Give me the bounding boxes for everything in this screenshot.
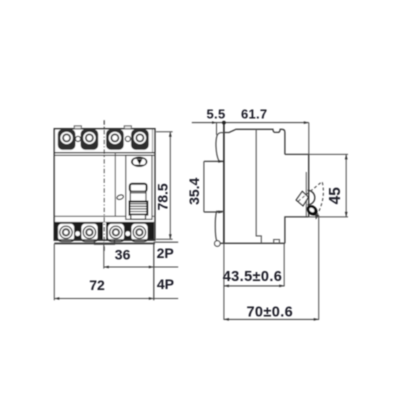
toggle side: knob	[305, 203, 320, 218]
centerline front	[103, 120, 105, 252]
toggle grip	[130, 202, 148, 215]
bottom terminal screws	[60, 226, 146, 238]
arc arrowhead	[315, 214, 319, 219]
dashed swing line	[298, 182, 322, 202]
back edge	[223, 123, 225, 244]
OFF indicator o	[116, 194, 124, 200]
inner vertical + step foot	[256, 129, 261, 243]
dim extensions bottom	[53, 244, 55, 300]
dim 72 arrows	[54, 297, 59, 300]
inner face line	[305, 172, 307, 217]
band lower line	[54, 239, 155, 241]
svg-text:45: 45	[327, 187, 344, 205]
svg-text:61.7: 61.7	[241, 107, 268, 122]
ext 61.7 right	[308, 123, 310, 155]
43.5 dim line	[224, 285, 284, 287]
body outline	[54, 129, 155, 240]
cover top line	[54, 154, 155, 156]
escutcheon panel	[126, 155, 152, 219]
toggle lower tab	[131, 215, 146, 220]
svg-text:35.4: 35.4	[186, 177, 202, 204]
dashed swing arc	[317, 182, 323, 215]
2P/4P table lines	[154, 241, 178, 243]
case bottom line	[54, 242, 155, 244]
step under toggle	[285, 217, 309, 243]
cover step line	[54, 215, 155, 217]
43.5 ext	[283, 244, 285, 287]
right seam line	[151, 130, 153, 153]
bottom terminal squares	[57, 223, 148, 241]
svg-text:43.5±0.6: 43.5±0.6	[223, 269, 283, 285]
top tab left	[74, 126, 81, 129]
toggle cap	[130, 184, 147, 192]
top terminal screws	[60, 132, 146, 144]
ext 5.5 left	[216, 123, 218, 135]
top flap	[216, 133, 224, 161]
svg-text:72: 72	[89, 277, 105, 293]
bottom small circles	[75, 231, 81, 237]
toggle neck	[130, 192, 146, 202]
dim 36 arrows	[104, 266, 109, 269]
70 knob extension	[318, 216, 320, 320]
toggle side: pivot arc	[307, 190, 314, 205]
top tab right	[124, 126, 131, 129]
svg-text:4P: 4P	[157, 276, 174, 292]
top terminal blob 1	[58, 130, 75, 150]
upper ledge	[285, 153, 309, 155]
top dim line	[192, 122, 309, 124]
70 dim line	[224, 318, 319, 320]
bottom face	[220, 242, 285, 244]
back edge extension down	[223, 243, 225, 320]
top terminal blob 4	[132, 130, 149, 150]
front face	[308, 154, 310, 217]
svg-text:2P: 2P	[157, 245, 174, 261]
clip loop circle	[215, 241, 221, 247]
35.4 dim	[204, 160, 223, 162]
bottom flap	[215, 211, 224, 242]
top terminal blob 2	[81, 130, 98, 150]
test button	[132, 157, 147, 166]
dim 78.5	[156, 131, 173, 133]
svg-text:70±0.6: 70±0.6	[246, 305, 293, 321]
svg-text:36: 36	[115, 247, 131, 263]
top terminal blob 3	[107, 130, 124, 150]
top small circles	[75, 136, 80, 141]
bottom band	[55, 222, 154, 240]
DIN clip bracket	[95, 240, 115, 244]
svg-text:78.5: 78.5	[155, 183, 171, 210]
top band bottom line	[54, 152, 155, 154]
toggle side: kite handle	[296, 191, 308, 205]
small foot bump	[274, 240, 280, 244]
svg-text:5.5: 5.5	[207, 107, 226, 122]
45 dim	[309, 153, 348, 155]
top surface	[224, 129, 285, 154]
module divider lines	[114, 153, 116, 217]
